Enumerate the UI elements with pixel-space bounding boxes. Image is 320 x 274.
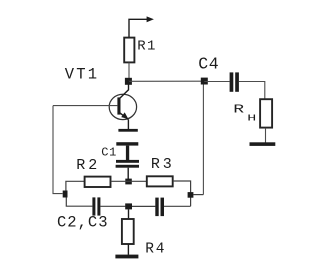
resistor RH <box>260 99 272 127</box>
node row1 middle <box>125 179 132 185</box>
wire jog up to row1 <box>66 181 85 190</box>
emitter capacitor plate top <box>116 160 139 163</box>
wire R3 to right corner <box>173 181 191 206</box>
wire R4 to ground <box>127 244 129 255</box>
wire R2 to R3 <box>111 180 147 182</box>
node row2 middle <box>125 203 132 209</box>
svg-text:R4: R4 <box>145 242 166 258</box>
wire left rail <box>53 106 63 194</box>
capacitor C2,C3 plate right <box>97 197 100 215</box>
resistor R1 <box>124 38 134 63</box>
svg-text:C2,C3: C2,C3 <box>57 214 109 232</box>
resistor R3 <box>147 176 173 186</box>
transistor VT1 base bar <box>117 97 120 114</box>
wire C2,C3 to row2 node <box>100 205 125 207</box>
wire base lead <box>53 105 117 107</box>
wire emitter capacitor to row1 node <box>127 168 129 180</box>
wire RH to ground <box>265 128 267 143</box>
wire C4 to RH <box>239 82 265 100</box>
transistor VT1 body <box>109 94 136 119</box>
svg-text:C1: C1 <box>101 146 117 160</box>
label RH <box>233 102 256 123</box>
wire R1 to collector node <box>128 63 130 80</box>
wire C1 to emitter capacitor <box>126 146 129 161</box>
ground under RH <box>250 142 276 146</box>
svg-text:R2: R2 <box>76 157 100 174</box>
capacitor C4 <box>230 72 239 91</box>
capacitor C2,C3 plate left <box>92 197 95 215</box>
wire C4 node to capacitor C4 <box>204 81 229 83</box>
capacitor C1 plate top <box>118 129 137 132</box>
row2 right capacitor plate left <box>155 198 158 217</box>
row2 right capacitor plate right <box>161 198 165 217</box>
wire row2 node to R4 <box>128 209 130 218</box>
wire right node stub <box>193 194 203 196</box>
resistor R4 <box>122 219 134 244</box>
node right junction <box>188 192 194 198</box>
resistor R2 <box>85 177 111 187</box>
wire riser to C4 node <box>202 85 204 195</box>
svg-text:C4: C4 <box>198 55 219 74</box>
wire right capacitor to right corner <box>164 205 191 207</box>
wire collector node to C4 node <box>128 80 204 82</box>
svg-text:R: R <box>233 102 244 116</box>
svg-text:VT1: VT1 <box>65 66 100 84</box>
node left junction <box>63 191 68 198</box>
emitter capacitor plate bottom <box>116 165 139 168</box>
node C4 junction <box>201 78 208 85</box>
transistor VT1 collector lead <box>120 81 129 98</box>
svg-text:R3: R3 <box>151 156 175 173</box>
node collector junction <box>125 78 132 85</box>
svg-text:R1: R1 <box>137 39 157 55</box>
supply arrow <box>129 16 154 38</box>
wire jog down to row2 <box>66 197 92 206</box>
ground under R4 <box>115 255 138 259</box>
capacitor C1 plate bottom <box>116 142 138 145</box>
svg-text:H: H <box>247 113 256 124</box>
wire row2 node to right capacitor <box>132 205 155 207</box>
transistor VT1 emitter lead <box>120 112 129 129</box>
